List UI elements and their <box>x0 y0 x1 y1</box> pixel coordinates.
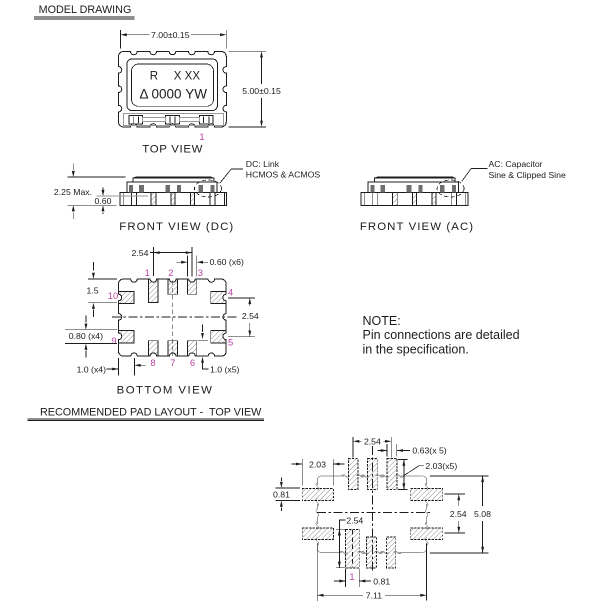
dimension 7.11 overall width <box>317 543 426 601</box>
pad layout centerline horizontal <box>317 512 431 514</box>
svg-text:5.00±0.15: 5.00±0.15 <box>242 86 281 96</box>
dimension 2.03(x5) pad length with leader <box>398 460 457 490</box>
svg-text:1.0 (x4): 1.0 (x4) <box>77 364 107 374</box>
svg-text:1: 1 <box>145 267 150 278</box>
svg-text:9: 9 <box>111 335 116 346</box>
svg-text:3: 3 <box>198 267 203 278</box>
svg-text:R: R <box>150 70 158 82</box>
dimension 0.81 pin1 pad width <box>334 568 390 587</box>
dimension 0.60 base height <box>95 187 149 214</box>
dimension 2.54 side pad pitch <box>228 298 259 337</box>
svg-text:0.80 (x4): 0.80 (x4) <box>69 331 103 341</box>
svg-text:1: 1 <box>199 131 204 142</box>
dimension 0.60 (x6) pad width <box>177 256 244 277</box>
svg-text:1.5: 1.5 <box>86 285 98 295</box>
dimension 5.00±0.15 <box>229 51 281 127</box>
dimension 2.25 Max <box>54 164 125 220</box>
svg-text:2.25 Max.: 2.25 Max. <box>54 187 92 197</box>
svg-text:RECOMMENDED PAD LAYOUT - TOP: RECOMMENDED PAD LAYOUT - TOP VIEW <box>40 406 262 418</box>
top view marking text R X XX <box>150 70 201 82</box>
leader AC capacitor callout <box>462 159 566 181</box>
svg-text:4: 4 <box>228 287 233 298</box>
svg-text:7.11: 7.11 <box>366 590 382 600</box>
bottom view centerline vertical <box>172 281 174 357</box>
svg-text:2.54: 2.54 <box>450 509 467 519</box>
svg-text:in the specification.: in the specification. <box>363 343 469 357</box>
svg-text:2.54: 2.54 <box>346 515 363 525</box>
heading RECOMMENDED PAD LAYOUT <box>28 406 264 420</box>
svg-text:7: 7 <box>170 357 175 368</box>
svg-text:2.03(x5): 2.03(x5) <box>425 461 457 471</box>
svg-text:MODEL DRAWING: MODEL DRAWING <box>39 4 132 16</box>
svg-text:0.60: 0.60 <box>95 196 112 206</box>
svg-text:TOP VIEW: TOP VIEW <box>142 144 203 156</box>
svg-text:X XX: X XX <box>174 70 201 82</box>
top view bottom pads strip <box>124 114 224 126</box>
note text <box>363 314 520 357</box>
svg-text:NOTE:: NOTE: <box>363 314 401 328</box>
top view marking text 0000 YW <box>140 87 208 102</box>
front view AC package <box>361 193 468 206</box>
svg-text:DC: Link: DC: Link <box>246 159 280 169</box>
svg-text:AC: Capacitor: AC: Capacitor <box>489 159 543 169</box>
svg-text:2.54: 2.54 <box>364 437 381 447</box>
svg-text:1.0 (x5): 1.0 (x5) <box>210 364 240 374</box>
bottom view pads <box>115 276 229 360</box>
svg-text:2: 2 <box>168 267 173 278</box>
svg-text:Sine & Clipped Sine: Sine & Clipped Sine <box>489 170 566 180</box>
pad layout phantom package outline <box>316 475 428 554</box>
heading MODEL DRAWING <box>34 4 135 19</box>
dimension 2.54 pin pitch top <box>132 247 192 276</box>
dimension 2.54 top pad layout <box>353 437 391 458</box>
front view DC package <box>120 193 227 206</box>
svg-text:5: 5 <box>228 337 233 348</box>
bottom view pin labels <box>108 267 233 368</box>
svg-text:8: 8 <box>150 357 155 368</box>
svg-text:2.03: 2.03 <box>309 459 326 469</box>
dimension 0.80 (x4) side pad width <box>65 316 117 358</box>
svg-text:0.81: 0.81 <box>373 576 390 586</box>
svg-text:6: 6 <box>190 357 195 368</box>
top view package outline <box>119 52 227 128</box>
dimension 5.08 overall height <box>430 476 491 553</box>
svg-text:Δ 0000 YW: Δ 0000 YW <box>140 87 208 102</box>
svg-text:FRONT VIEW (DC): FRONT VIEW (DC) <box>119 221 234 233</box>
dimension 0.63(x 5) pad width <box>378 444 447 456</box>
leader DC link callout <box>220 159 321 183</box>
svg-text:1: 1 <box>349 571 354 582</box>
dimension 7.00±0.15 <box>121 30 227 49</box>
dimension 1.0 (x5) pad length <box>197 325 239 375</box>
svg-text:HCMOS & ACMOS: HCMOS & ACMOS <box>246 170 321 180</box>
dimension 1.5 pad length <box>86 262 117 317</box>
svg-text:5.08: 5.08 <box>474 509 491 519</box>
svg-text:7.00±0.15: 7.00±0.15 <box>151 30 190 40</box>
svg-text:0.81: 0.81 <box>273 490 290 500</box>
dimension 2.03 left pad length <box>292 459 345 485</box>
svg-text:10: 10 <box>108 290 118 301</box>
svg-text:Pin connections are detailed: Pin connections are detailed <box>363 328 520 342</box>
dimension 0.81 left pad width <box>273 478 300 512</box>
dimension 1.0 (x4) corner offset <box>77 358 146 375</box>
dimension 2.54 pin1 pad length <box>336 515 363 567</box>
svg-text:2.54: 2.54 <box>242 311 259 321</box>
dimension 2.54 right pad pitch <box>445 494 467 533</box>
bottom view package outline <box>119 279 227 356</box>
bottom view centerline horizontal <box>112 316 238 318</box>
pad layout centerline vertical <box>371 446 373 572</box>
svg-text:0.63(x 5): 0.63(x 5) <box>412 446 446 456</box>
svg-text:BOTTOM VIEW: BOTTOM VIEW <box>117 385 214 397</box>
top view lid <box>127 59 218 111</box>
svg-text:0.60 (x6): 0.60 (x6) <box>210 257 244 267</box>
svg-text:2.54: 2.54 <box>132 248 149 258</box>
svg-text:FRONT VIEW (AC): FRONT VIEW (AC) <box>360 221 474 233</box>
pad layout pads <box>302 459 443 568</box>
